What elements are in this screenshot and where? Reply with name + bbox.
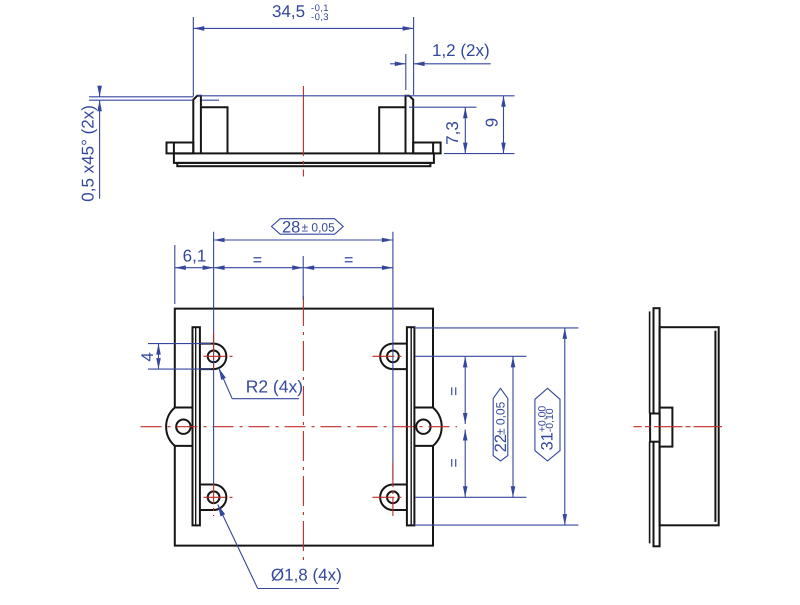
dimension 0,5 x45° (2x) chamfer [89,96,193,98]
svg-text:22: 22 [492,434,510,452]
side view: thin outer strip [649,311,651,413]
dimension 6,1 edge to hole [174,245,176,304]
plan view: hole boss bottom-right [380,485,407,511]
top view: left clip post with chamfer [193,96,201,154]
svg-text:0,5 x45° (2x): 0,5 x45° (2x) [79,105,98,202]
plan view: hole boss top-right [380,344,407,370]
dimension 22 ± 0,05 hole row spacing with hexagon frame [512,356,514,497]
svg-text:9: 9 [483,118,502,127]
svg-text:=: = [344,252,353,269]
side view: horizontal centerline [634,426,723,428]
dimension 4 boss width [148,343,211,345]
svg-text:1,2 (2x): 1,2 (2x) [432,41,490,60]
dimension 31 +0,00/-0,10 rail length with hexagon frame [414,327,579,329]
top view: right tab wall [379,107,405,153]
dimension 9 overall height [198,95,515,97]
svg-text:R2 (4x): R2 (4x) [246,376,303,396]
svg-text:7,3: 7,3 [443,121,462,145]
dimension 7,3 tab height [409,106,477,108]
leader R2 (4x) [219,368,233,399]
top view: vertical centerline [302,86,304,177]
svg-text:=: = [446,458,463,467]
equal-spacing dimensions (=) about centerline [302,256,304,300]
svg-text:-0,3: -0,3 [311,12,329,23]
svg-text:31: 31 [539,432,557,450]
svg-text:6,1: 6,1 [183,247,207,266]
dimension 1,2 (2x) post thickness [405,54,407,90]
svg-text:=: = [446,387,463,396]
side view: lug profile [660,408,673,447]
plan view: hole column centerlines [213,333,215,369]
top view: right clip post with chamfer [406,96,414,154]
svg-text:± 0,05: ± 0,05 [493,401,507,435]
top view: base plate upper layer [174,153,434,163]
svg-text:34,5: 34,5 [272,2,305,21]
plan view: right rail with chamfer line [407,327,415,525]
plan view: four mounting holes [208,350,220,362]
plan view: hole row cross ticks [204,355,235,357]
svg-text:Ø1,8 (4x): Ø1,8 (4x) [271,566,342,585]
plan view: left lug with hole [166,408,192,446]
dimension 34,5 with tolerances [192,17,194,97]
plan view: hole boss bottom-left [200,485,226,511]
side view: plate edge strip [654,308,660,546]
plan view: plate outline [175,309,433,546]
top view: left tab wall [201,107,228,153]
plan view: vertical centerline [302,296,304,561]
plan view: hole boss top-left [200,344,226,370]
plan view: right lug with hole [414,408,441,446]
plan view: left rail with chamfer line [193,327,200,525]
top view: base plate lower layer [177,163,430,166]
top view: left side lug (edge-on) [167,143,194,154]
plan view: horizontal centerline [141,426,458,428]
svg-text:=: = [253,252,262,269]
svg-text:± 0,05: ± 0,05 [302,220,336,234]
dimension 28 ± 0,05 hole spacing with hexagon frame [213,232,215,484]
side view: body block [660,327,719,525]
svg-text:-0,10: -0,10 [544,408,556,432]
top view: right side lug (edge-on) [413,143,440,154]
leader Ø1,8 (4x) [218,505,258,589]
svg-text:4: 4 [138,352,157,361]
svg-text:28: 28 [282,218,300,236]
equal-spacing dimensions (=) vertical [415,355,526,357]
